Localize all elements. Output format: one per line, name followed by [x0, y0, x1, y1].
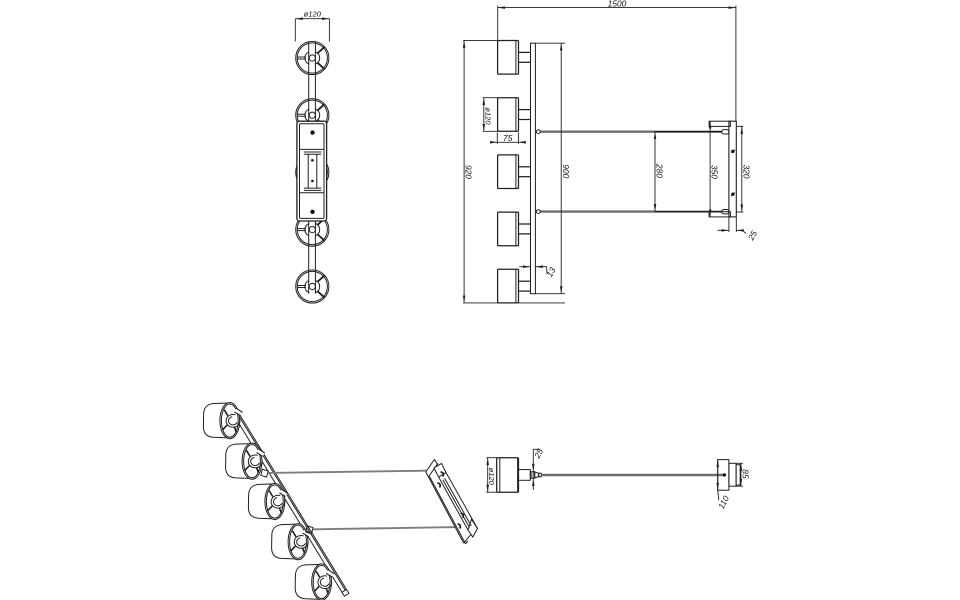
lamp head 3 (front view)	[498, 155, 519, 189]
knurled knob joint	[530, 472, 541, 479]
box top end face	[434, 464, 446, 478]
dimension 900	[536, 43, 571, 294]
dimension 320	[736, 126, 751, 212]
ceiling plate (side detail)	[718, 460, 740, 491]
dimension 1500	[498, 0, 736, 121]
lamp head circle 2 (top view)	[296, 99, 329, 132]
box bottom end face	[468, 519, 478, 537]
iso ceiling plate box (canopy body)	[434, 464, 478, 538]
iso rod joint 2	[306, 526, 313, 534]
dimension 25 (plate thickness)	[718, 218, 760, 243]
stem (side detail)	[519, 470, 531, 481]
dimension 75	[491, 133, 525, 144]
lamp head 4 (front view)	[498, 212, 519, 246]
svg-text:75: 75	[503, 133, 513, 143]
lamp head circle 4 (top view)	[296, 213, 329, 246]
dimension phi120 (side detail)	[486, 458, 496, 493]
iso head 3	[248, 483, 287, 519]
ceiling plate (front view)	[709, 121, 736, 217]
svg-text:280: 280	[655, 163, 665, 178]
lamp head circle 3 (top view)	[296, 156, 329, 189]
lamp head (side detail)	[497, 458, 519, 493]
dimension 85	[736, 463, 750, 486]
dimension 13	[519, 265, 557, 278]
suspension rod 1 (front view)	[536, 130, 729, 134]
dimension 350	[710, 121, 720, 217]
stem head 5	[519, 281, 531, 291]
iso ceiling plate sheet	[426, 459, 475, 544]
canopy plate (top view)	[297, 121, 327, 221]
stem head 3	[519, 167, 531, 177]
canopy divider lines	[300, 149, 325, 192]
iso rod joint 1	[261, 469, 268, 477]
svg-text:920: 920	[464, 165, 474, 179]
iso head 2	[226, 443, 265, 479]
dimension 110	[716, 460, 731, 511]
svg-text:1500: 1500	[608, 0, 627, 8]
screw marks on ceiling plate	[731, 150, 735, 197]
svg-text:320: 320	[741, 165, 751, 179]
dimension 280	[655, 132, 665, 212]
stem head 4	[519, 224, 531, 234]
iso plate hooks and screws	[437, 472, 463, 529]
iso head 4	[272, 524, 311, 560]
svg-text:ø120: ø120	[487, 468, 496, 486]
svg-text:85: 85	[740, 469, 750, 479]
lamp head circle 1 (top view)	[296, 41, 329, 74]
dimension 920	[463, 40, 565, 303]
svg-text:ø120: ø120	[304, 9, 322, 18]
stem head 1	[519, 52, 531, 62]
box long edges	[446, 473, 478, 529]
lamp head circle 5 (top view)	[296, 270, 329, 303]
svg-text:900: 900	[561, 164, 571, 178]
canopy I-bracket	[304, 152, 321, 190]
canopy small screws	[311, 159, 314, 182]
dimension phi120 (front)	[483, 98, 500, 132]
iso suspension rod 1	[268, 471, 427, 473]
iso mounting bar	[229, 406, 349, 596]
canopy big screws	[310, 130, 314, 214]
suspension rod 2 (front view)	[536, 210, 729, 214]
dimension phi120 (top view)	[295, 9, 329, 41]
iso suspension rod 2	[313, 527, 457, 529]
dimension 25 (joint)	[531, 447, 545, 490]
mounting bar (front view)	[531, 43, 536, 294]
bar (top view)	[309, 42, 316, 294]
stem head 2	[519, 110, 531, 120]
svg-text:350: 350	[710, 165, 720, 179]
lamp head 2 (front view)	[498, 98, 519, 132]
lamp head 5 (front view)	[498, 269, 519, 303]
iso head 5	[295, 564, 334, 600]
suspension rod (side detail)	[541, 474, 723, 476]
lamp head 1 (front view)	[498, 41, 519, 75]
svg-text:ø120: ø120	[483, 107, 492, 125]
iso head 1	[203, 403, 242, 439]
channel lines inside box	[443, 480, 470, 528]
